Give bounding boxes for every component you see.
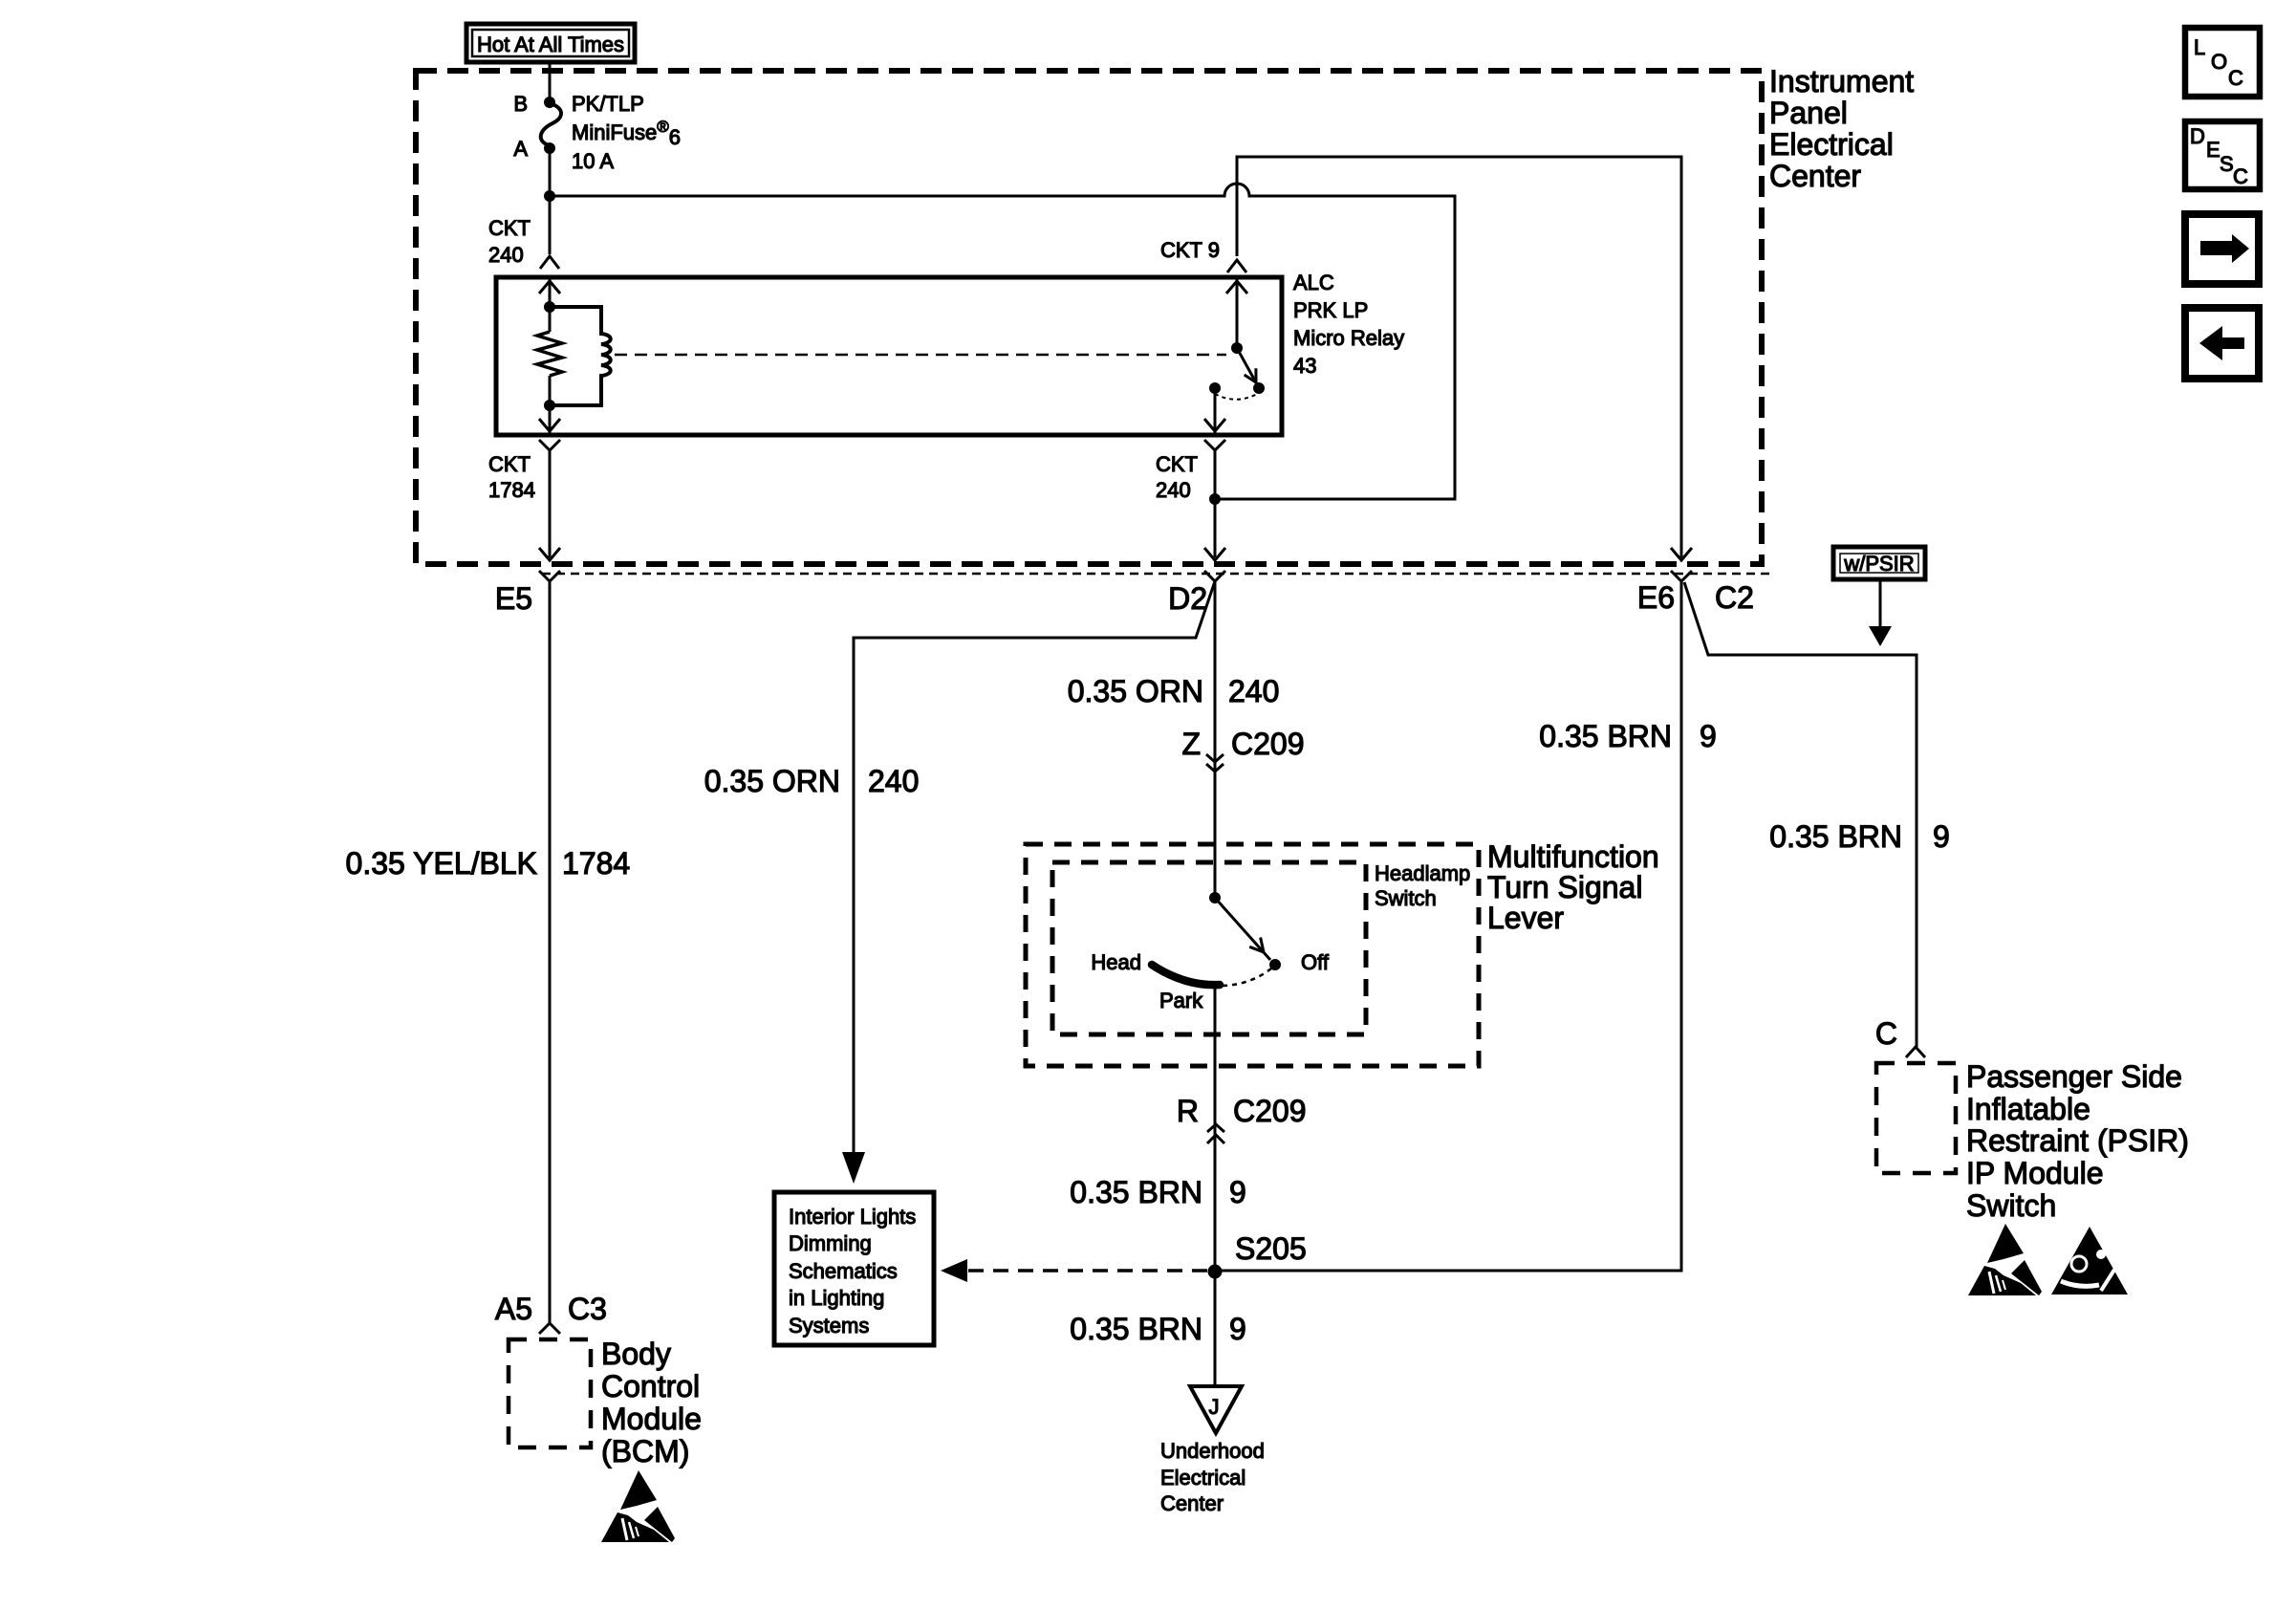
label: Body Control Module (BCM) [601,1337,702,1469]
splice S205 [1208,1231,1307,1279]
svg-text:0.35 BRN: 0.35 BRN [1769,819,1902,854]
SIR symbol (PSIR) [2051,1227,2128,1295]
pin arrow down (switch output) [1204,419,1225,431]
fuse F6: PK/TLP MiniFuse 6 10 A [513,92,681,173]
svg-text:Multifunction: Multifunction [1487,839,1659,874]
svg-text:0.35 YEL/BLK: 0.35 YEL/BLK [346,846,537,881]
svg-text:C209: C209 [1233,1094,1307,1128]
svg-text:Turn Signal: Turn Signal [1487,870,1642,904]
svg-text:Passenger Side: Passenger Side [1966,1059,2182,1094]
pin arrow up (switch feed) [1226,281,1247,294]
svg-text:Micro Relay: Micro Relay [1293,326,1404,350]
svg-text:Park: Park [1159,989,1203,1012]
svg-text:Head: Head [1091,950,1141,974]
label: Passenger Side Inflatable Restraint (PSIR) IP Module Switch [1966,1059,2189,1223]
junction dot at fuse output [544,190,555,202]
label: 0.35 ORN 240 (D2 drop) [1068,674,1280,708]
IP EC connector row (thin dashed line) [542,573,1770,576]
wire: CKT 9 from relay switch up and over to E6 [1237,157,1681,557]
svg-text:S: S [2220,152,2234,176]
wire: S205 to E6 (0.35 BRN 9) [1215,581,1681,1271]
pin arrow up (coil feed) [539,281,560,294]
filled arrowhead (left) [941,1259,967,1282]
svg-text:0.35 ORN: 0.35 ORN [1068,674,1203,708]
wire: S205 down to junction block J [1214,1271,1217,1386]
coil bottom junction dot [544,400,555,411]
label: 0.35 BRN 9 (E6 drop) [1539,719,1717,753]
w/PSIR flag [1833,547,1925,646]
connector A5 / C3 [495,1292,607,1334]
svg-text:0.35 ORN: 0.35 ORN [704,764,840,798]
wire: switched feed loop (fuse output to relay switch output) [550,184,1455,499]
svg-text:Body: Body [601,1337,671,1371]
label: 0.35 BRN 9 (below S205) [1070,1312,1246,1346]
connector chevron below relay (coil return) [539,440,560,450]
DESC nav box [2185,121,2260,189]
svg-text:Off: Off [1301,950,1330,974]
filled arrowhead into Interior Lights box [842,1152,865,1184]
svg-text:(BCM): (BCM) [601,1434,689,1469]
svg-text:C3: C3 [568,1292,607,1326]
previous page arrow box [2185,308,2259,379]
NC contact dot [1209,382,1221,394]
svg-text:240: 240 [488,243,524,267]
svg-text:9: 9 [1933,819,1950,854]
svg-text:9: 9 [1229,1312,1246,1346]
svg-text:Module: Module [601,1402,702,1436]
svg-text:Z: Z [1181,727,1201,761]
svg-text:CKT: CKT [488,452,531,476]
svg-text:Center: Center [1160,1491,1224,1515]
svg-text:E6: E6 [1637,580,1675,615]
next page arrow box [2185,214,2259,284]
svg-text:ALC: ALC [1293,271,1334,294]
PSIR dashed box [1876,1063,1956,1173]
svg-text:Dimming: Dimming [789,1231,872,1255]
connector chevron (fuse feed into relay) [540,256,559,269]
svg-text:D: D [2190,124,2205,148]
svg-text:240: 240 [868,764,919,798]
in-line connector Z C209 [1181,727,1304,772]
svg-text:Panel: Panel [1769,96,1848,130]
label: Instrument Panel Electrical Center [1769,64,1914,193]
svg-text:43: 43 [1293,354,1316,378]
pin arrow down (coil return) [539,419,560,431]
wire: fuse output down to relay connector [549,148,552,254]
Instrument Panel Electrical Center dashed box [416,71,1762,564]
label: 0.35 ORN 240 (branch) [704,764,920,798]
svg-text:PK/TLP: PK/TLP [572,92,644,116]
connector chevron (CKT 9 into relay) [1227,260,1246,272]
wire: switch output to border (D2) [1214,450,1217,557]
svg-text:0.35 BRN: 0.35 BRN [1070,1175,1202,1209]
svg-text:C209: C209 [1231,727,1305,761]
svg-text:Lever: Lever [1487,901,1564,935]
svg-text:A5: A5 [495,1292,532,1326]
wire: headlamp switch park output down [1214,984,1217,1271]
switch pivot dot [1231,342,1243,354]
Multifunction Turn Signal Lever dashed box [1026,844,1479,1066]
svg-text:Switch: Switch [1966,1188,2056,1223]
svg-text:Interior Lights: Interior Lights [789,1205,916,1229]
arrow at border (E5) [539,548,560,560]
svg-text:CKT: CKT [1156,452,1198,476]
svg-text:Instrument: Instrument [1769,64,1914,98]
svg-text:9: 9 [1229,1175,1246,1209]
BCM dashed box [509,1339,591,1447]
svg-text:0.35 BRN: 0.35 BRN [1070,1312,1202,1346]
relay coil (inductor) [550,307,611,405]
svg-text:Switch: Switch [1375,886,1437,910]
svg-text:PRK LP: PRK LP [1293,298,1368,322]
Headlamp Switch dashed box [1052,862,1366,1034]
label: CKT 1784 [488,452,535,502]
NO contact dot [1253,382,1265,394]
svg-text:in Lighting: in Lighting [789,1286,884,1310]
svg-text:IP Module: IP Module [1966,1156,2104,1190]
svg-text:E: E [2206,138,2220,162]
svg-text:C: C [1875,1016,1897,1051]
svg-text:Electrical: Electrical [1769,127,1894,162]
svg-text:Center: Center [1769,159,1861,193]
label: CKT 240 (below relay switch) [1156,452,1198,502]
svg-text:Electrical: Electrical [1160,1466,1245,1490]
label: 0.35 BRN 9 (C2 drop) [1769,819,1950,854]
svg-text:B: B [513,92,528,116]
svg-text:w/PSIR: w/PSIR [1843,552,1914,576]
connector D2 [1168,571,1225,616]
dashed throw arc [1215,393,1259,400]
switch output wire [1214,388,1217,435]
branch wire: 0.35 ORN 240 to Interior Lights Dimming [854,581,1215,1152]
svg-text:1784: 1784 [562,846,630,881]
svg-text:A: A [513,137,528,161]
wire: feed from Hot At All Times into fuse [549,62,552,99]
svg-text:Restraint (PSIR): Restraint (PSIR) [1966,1123,2189,1158]
label: Multifunction Turn Signal Lever [1487,839,1659,935]
connector E6 / C2 [1637,571,1754,615]
svg-text:C: C [2228,66,2243,90]
svg-text:Underhood: Underhood [1160,1439,1265,1463]
headlamp switch mechanism [1091,892,1329,1012]
wire: coil return to border (E5) [549,450,552,557]
LOC nav box [2185,28,2260,97]
power flag: Hot At All Times [466,24,635,62]
svg-text:S205: S205 [1235,1231,1307,1266]
svg-text:9: 9 [1700,719,1717,753]
connector C (PSIR) [1875,1016,1925,1057]
coil top junction dot [544,301,555,313]
relay box: ALC PRK LP Micro Relay 43 [496,277,1282,435]
svg-text:Control: Control [601,1369,700,1403]
svg-text:E5: E5 [495,581,532,616]
svg-text:D2: D2 [1168,581,1207,616]
relay switch common wire [1236,277,1239,348]
dashed wire: S205 to Interior Lights Dimming box [965,1269,1207,1273]
svg-text:0.35 BRN: 0.35 BRN [1539,719,1672,753]
wire: D2 to headlamp switch [1214,581,1217,898]
connector chevron below relay (switch output) [1204,440,1225,450]
svg-text:CKT: CKT [488,216,531,240]
svg-text:L: L [2194,35,2205,59]
svg-text:240: 240 [1228,674,1279,708]
svg-text:Systems: Systems [789,1314,869,1338]
arrow at border (E6) [1671,548,1692,560]
svg-text:R: R [1177,1094,1199,1128]
svg-text:Headlamp: Headlamp [1375,861,1470,885]
svg-text:C: C [2233,164,2248,188]
Interior Lights Dimming Schematics box [774,1192,934,1345]
label: Headlamp Switch [1375,861,1470,910]
movable contact arm with arrowhead [1237,348,1257,384]
svg-text:Schematics: Schematics [789,1259,898,1283]
svg-text:C2: C2 [1715,580,1754,615]
wire: C2 to PSIR switch [1684,582,1917,1047]
svg-text:CKT 9: CKT 9 [1160,238,1220,262]
connector E5 [495,571,560,616]
label: CKT 240 (above relay) [488,216,531,267]
svg-text:J: J [1209,1395,1220,1419]
junction dot on D2 wire [1209,493,1221,505]
wire: 0.35 YEL/BLK 1784 (E5 to BCM) [549,581,552,1323]
ESD symbol (BCM) [601,1470,675,1542]
in-line connector R C209 [1177,1094,1307,1143]
svg-text:Inflatable: Inflatable [1966,1092,2090,1126]
svg-text:O: O [2211,50,2227,74]
resistor (coil suppression) [537,332,562,376]
arrow at border (D2) [1204,548,1225,560]
svg-text:240: 240 [1156,478,1191,502]
svg-text:10 A: 10 A [572,149,614,173]
label: 0.35 BRN 9 (above S205) [1070,1175,1246,1209]
dashed actuation link (coil to switch) [615,354,1226,357]
svg-text:1784: 1784 [488,478,535,502]
label: ALC PRK LP Micro Relay 43 [1293,271,1404,378]
relay coil pin wire [549,277,552,435]
label: 0.35 YEL/BLK 1784 [346,846,631,881]
svg-text:Hot At All Times: Hot At All Times [477,33,624,56]
ground symbol J (Underhood Electrical Center) [1160,1386,1265,1515]
ESD symbol (PSIR) [1968,1224,2042,1295]
